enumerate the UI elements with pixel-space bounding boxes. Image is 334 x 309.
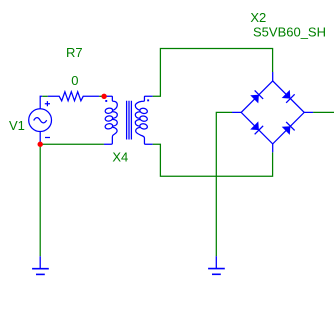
transformer X4 phase dot primary xyxy=(105,100,107,102)
svg-text:X2: X2 xyxy=(250,10,266,25)
wire X4 primary bottom to V1 bottom junction xyxy=(40,143,104,145)
svg-text:R7: R7 xyxy=(66,45,83,60)
bridge diode D3 (bottom-left edge, cathode to bottom vertex) xyxy=(250,121,263,134)
resistor R7 xyxy=(48,92,99,101)
ground symbol (below V1) xyxy=(32,256,49,274)
transformer X4 phase dot secondary xyxy=(147,99,149,101)
bridge X2 pin stubs xyxy=(232,72,313,152)
bridge diode D2 (top-right edge, cathode to right vertex) xyxy=(282,90,295,103)
ground symbol (below bridge minus) xyxy=(208,256,225,274)
transformer X4 secondary winding xyxy=(135,96,152,110)
svg-text:S5VB60_SH: S5VB60_SH xyxy=(253,25,326,40)
svg-text:X4: X4 xyxy=(112,149,128,164)
transformer X4 primary winding xyxy=(104,96,117,110)
transformer X4 core xyxy=(127,101,132,140)
wire bridge plus output to right edge xyxy=(313,111,334,113)
wire V1 top to R7 xyxy=(42,95,48,97)
bridge diode D1 (left-top edge, cathode to top vertex) xyxy=(250,90,263,103)
wire R7 right to junction xyxy=(99,95,104,97)
voltage source V1 xyxy=(29,109,52,132)
wire bridge minus output down to ground xyxy=(216,112,232,256)
bridge rectifier X2 diamond body xyxy=(241,81,304,144)
wire X4 secondary bottom to bridge bottom (node AC2) xyxy=(153,144,273,176)
wire X4 secondary top to bridge top (node AC1) xyxy=(153,49,273,97)
junction dot at V1 bottom xyxy=(38,142,43,147)
wire V1 bottom junction down to ground xyxy=(39,144,41,256)
junction dot at R7 / X4 primary top xyxy=(101,94,106,99)
bridge diode D4 (bottom-right edge, cathode to right vertex) xyxy=(282,122,295,135)
svg-text:V1: V1 xyxy=(9,118,25,133)
svg-text:0: 0 xyxy=(71,73,78,88)
